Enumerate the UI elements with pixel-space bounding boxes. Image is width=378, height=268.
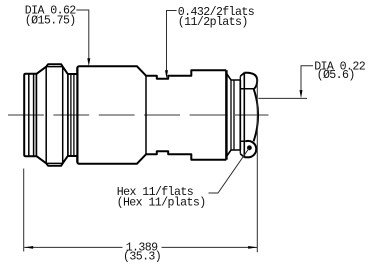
hex nut lobe boundary lines [240,89,254,142]
svg-text:(Hex 11/plats): (Hex 11/plats) [117,196,206,209]
neck chamfer outline [227,74,241,157]
label 0.432/2flats arrowhead [165,70,168,78]
body right chamfer edge [145,76,147,155]
hex nut middle lobe [254,89,258,142]
label DIA 0.62 leader [76,10,89,60]
neck verticals [231,80,234,150]
hex nut top flat and top lobe [244,73,257,89]
hex nut inner vertical [243,73,245,158]
leader dot on hex flat [247,145,252,150]
svg-text:(Ø15.75): (Ø15.75) [25,14,76,27]
coupling nut lip outline [24,74,36,156]
dimension 1.389 left extension line [23,169,25,252]
label Hex 11/flats leader [209,148,250,193]
body left face [76,68,78,163]
label 0.432/2flats leader [167,11,177,71]
dimension 1.389 right extension line [256,79,258,253]
lip internal verticals [29,74,34,156]
knurl right face [67,74,69,156]
hex nut bottom flat and bottom lobe [244,141,256,157]
label 0.432/2flats text [178,6,254,29]
label DIA 0.22 arrowhead [300,90,303,98]
svg-text:(11/2plats): (11/2plats) [178,16,248,29]
dimension 1.389 text [123,242,161,264]
knurl crown edge verticals [46,67,63,164]
svg-text:(35.3): (35.3) [123,251,161,264]
hex nut left face [240,73,244,158]
main body right face [225,70,228,159]
label DIA 0.22 leader [301,66,313,91]
label DIA 0.22 text [314,61,366,82]
centerline [8,114,269,116]
knurl body outline [36,64,77,166]
label DIA 0.62 text [25,4,77,27]
groove internal verticals [71,74,74,156]
knurl chamfer edge lines [46,67,63,164]
dimension 1.389 arrowheads [24,246,33,249]
label DIA 0.62 arrowhead [87,58,90,66]
dimension 1.389 line [24,246,257,248]
main body left section outline [77,66,226,163]
lip knurl boundary [35,74,37,156]
svg-text:(Ø5.6): (Ø5.6) [317,69,355,82]
dia 5.6 interface line [258,97,307,99]
label Hex 11/flats text [117,186,206,210]
